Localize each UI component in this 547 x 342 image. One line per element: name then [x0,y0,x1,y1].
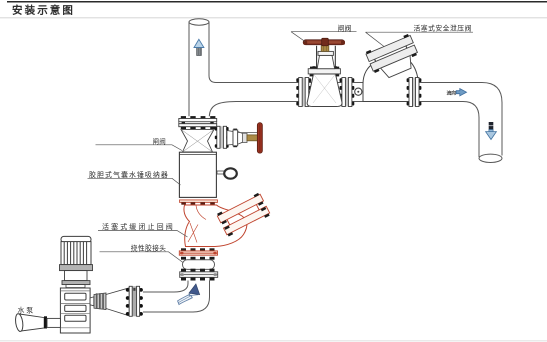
svg-text:闸阀: 闸阀 [338,23,352,32]
svg-text:活塞式缓闭止回阀: 活塞式缓闭止回阀 [102,222,175,231]
svg-text:流向: 流向 [447,90,457,97]
svg-text:挠性胶接头: 挠性胶接头 [131,243,166,252]
svg-text:闸阀: 闸阀 [153,136,166,145]
svg-text:安装示意图: 安装示意图 [12,4,75,17]
svg-text:水泵: 水泵 [18,306,35,315]
svg-text:胶胆式气囊水锤吸纳器: 胶胆式气囊水锤吸纳器 [89,170,169,179]
svg-text:活塞式安全泄压阀: 活塞式安全泄压阀 [414,24,472,33]
